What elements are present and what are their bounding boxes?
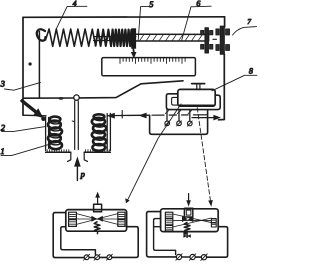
left unit pilot spring (94, 222, 100, 234)
svg-text:p: p (80, 169, 85, 179)
label 5 (138, 0, 153, 40)
spring 4 (helical spring) (46, 29, 96, 46)
main housing outline (23, 17, 225, 120)
svg-text:5: 5 (149, 0, 153, 9)
spring 1 (right coil) (92, 114, 106, 151)
bottom-left flange line (23, 114, 46, 117)
terminal stubs and circles (165, 110, 192, 127)
svg-text:7: 7 (247, 17, 251, 26)
coupling 7 (outer) (216, 26, 230, 54)
label 4 (56, 0, 87, 29)
scale (graduated ruler) (102, 58, 196, 76)
label 7 (233, 17, 257, 35)
stub between couplings (213, 38, 216, 40)
push rod (vertical) (72, 101, 78, 149)
label 3 (0, 79, 41, 91)
inlet channel (68, 152, 88, 161)
rivet dot (29, 62, 32, 65)
valve stem of unit 8 (192, 84, 205, 90)
end plate 5 (131, 28, 136, 48)
rod grommet on bottom wall (74, 95, 79, 100)
svg-text:8: 8 (249, 66, 253, 75)
right unit linkage (173, 214, 212, 227)
left unit up arrow (95, 192, 100, 204)
left unit inner wiring (61, 227, 96, 255)
pointer needle (131, 49, 137, 59)
box 8 (178, 89, 215, 106)
right unit pilot spring and stem (183, 222, 191, 237)
right unit top port (184, 208, 192, 217)
spring 4 hook (37, 29, 46, 40)
label 2 (1, 123, 46, 133)
left unit body (66, 210, 127, 232)
bottom tank of unit 8 (150, 110, 208, 134)
container bottom with grating (46, 150, 111, 153)
label 8 (212, 66, 257, 90)
container right wall (107, 113, 110, 150)
arrow P (74, 156, 85, 180)
left unit left contacts (69, 212, 77, 226)
right unit down arrow (186, 194, 191, 207)
compressed coils (transition) (96, 30, 111, 47)
compressed coils (dense block) (111, 30, 131, 46)
svg-text:3: 3 (0, 79, 5, 89)
tray around box 8 (166, 94, 220, 110)
coupling flange (inner) (201, 28, 213, 53)
thick corner arrow (22, 101, 46, 121)
dashed leader to right lower unit (197, 108, 213, 207)
right unit terminals (176, 254, 207, 261)
outlet arrow (192, 115, 221, 121)
junction blob on bottom wall (58, 97, 63, 100)
label 1 (0, 145, 48, 156)
left unit linkage (76, 214, 117, 225)
svg-text:4: 4 (73, 0, 77, 8)
rod through spring (94, 37, 137, 41)
right unit right contacts (211, 219, 216, 227)
right unit outer wiring (147, 212, 228, 258)
container left wall (46, 117, 49, 150)
right unit body (161, 209, 219, 232)
spring 2 (left coil) (48, 117, 62, 150)
label 6 (182, 0, 212, 40)
left unit terminals (84, 254, 113, 260)
pipe from chamber to tank with flow arrows (107, 111, 150, 119)
svg-text:1: 1 (0, 146, 4, 156)
leader to left lower unit (125, 104, 181, 203)
left unit outer wiring (53, 213, 138, 258)
rod 6 (136, 34, 209, 41)
spring anchor post (38, 32, 40, 98)
left unit top port (94, 204, 102, 212)
left unit right contacts (118, 212, 125, 226)
right unit inner wiring (154, 219, 176, 255)
right unit left contacts (165, 212, 172, 231)
